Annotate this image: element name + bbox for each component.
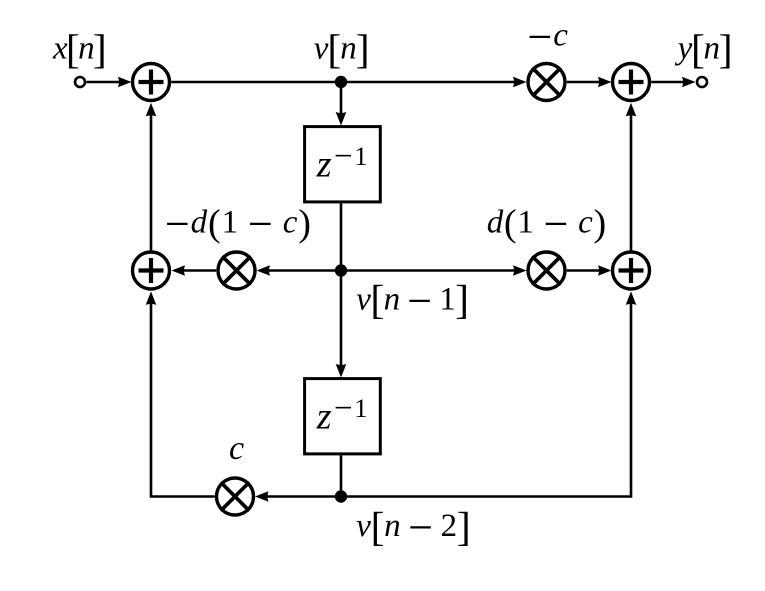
arrowhead into Z2 [336,364,347,378]
svg-text:−1: −1 [334,391,368,427]
wire input to adder A1 [87,81,123,84]
svg-text:z: z [316,396,332,438]
svg-text:y[n]: y[n] [675,26,733,72]
arrowhead into A4 bottom (pointing up) [626,291,637,305]
arrowhead into M4 (pointing left) [255,491,269,502]
delay box Z2 [305,379,381,454]
wire A4 up to A2 [630,112,633,252]
arrowhead into output [682,77,696,88]
arrowhead into A3 bottom (pointing up) [146,291,157,305]
arrowhead into M3 [513,265,527,276]
wire M3 to adder A4 [567,269,602,272]
wire A3 up to A1 [150,112,153,252]
arrowhead into A2 bottom (pointing up) [626,103,637,117]
wire node v[n-1] left to M2 [266,269,341,272]
adder A1 top-left [133,64,170,101]
multiplier M3 (d(1-c)) [528,252,565,289]
svg-text:z: z [316,144,332,186]
wire Z2 down to node v[n-2] [340,455,343,496]
wire node v[n] to multiplier M1 [341,81,517,84]
wire A2 to output terminal [651,81,686,84]
wire node v[n-2] left to M4 [264,495,341,498]
arrowhead into M1 [513,77,527,88]
wire M1 to adder A2 [567,81,602,84]
wire node v[n-2] right and up to A4 [341,300,631,497]
svg-text:x[n]: x[n] [52,26,107,72]
adder A2 top-right [613,64,650,101]
arrowhead into A1 [118,77,132,88]
arrowhead into Z1 [336,112,347,126]
wire A1 to node v[n] [171,81,341,84]
arrowhead into A4 [598,265,612,276]
wire node v[n-1] right to M3 [341,269,517,272]
delay box Z1 [305,127,381,202]
adder A3 middle-left [133,252,170,289]
multiplier M1 (-c) [528,64,565,101]
arrowhead into A3 (pointing left) [172,265,186,276]
adder A4 middle-right [613,252,650,289]
svg-text:v[n]: v[n] [314,26,370,72]
arrowhead into A1 bottom (pointing up) [146,103,157,117]
node v[n-1] [335,264,347,276]
wire M2 to adder A3 [181,269,216,272]
node v[n] [335,76,347,88]
multiplier M4 (c) [217,478,254,515]
arrowhead into M2 (pointing left) [257,265,271,276]
multiplier M2 (-d(1-c)) [218,252,255,289]
node v[n-2] [335,490,347,502]
wire node v[n] down to delay Z1 [340,82,343,116]
wire M4 left and up to A3 [151,300,215,497]
wire Z1 down to node v[n-1] [340,203,343,270]
wire node v[n-1] down to delay Z2 [340,271,343,369]
svg-text:c: c [229,430,244,467]
arrowhead into A2 [598,77,612,88]
svg-text:−1: −1 [334,139,368,175]
output terminal y[n] [697,77,707,87]
input terminal x[n] [75,77,85,87]
